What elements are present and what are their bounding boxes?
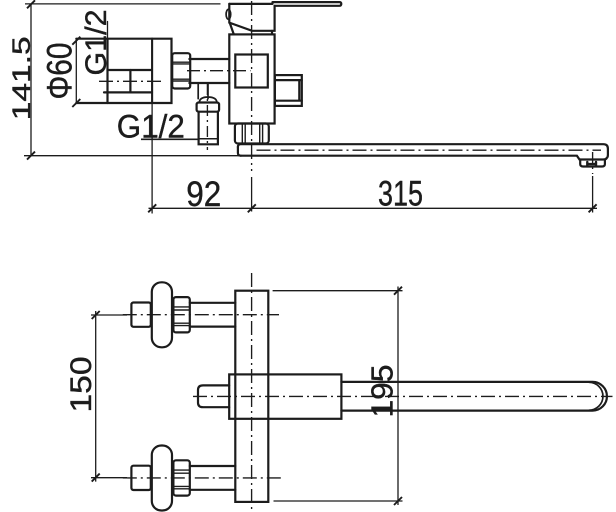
141.5 bottom extension	[24, 155, 239, 157]
svg-text:150: 150	[65, 357, 98, 413]
195 top extension	[273, 290, 403, 292]
diverter dome	[199, 97, 217, 103]
spout nut	[235, 124, 269, 144]
150 escutcheon (front, upper)	[152, 282, 172, 347]
spout centerline (front)	[193, 395, 613, 397]
valve seat square	[235, 55, 267, 88]
spout tube top	[238, 144, 608, 158]
svg-text:195: 195	[365, 365, 400, 418]
150 escutcheon (front, lower)	[152, 446, 172, 511]
hex facet lines (upper)	[174, 307, 190, 326]
pipe centerline (side)	[187, 70, 251, 72]
diverter centerline	[206, 84, 208, 150]
diverter cap	[197, 103, 220, 112]
92/315 dimension line	[149, 207, 598, 209]
92/315 ticks	[148, 204, 596, 212]
body column (front)	[235, 291, 268, 502]
150 dimension line	[95, 311, 97, 482]
svg-text:92: 92	[186, 175, 221, 214]
phi60 dimension line	[75, 39, 77, 103]
handle neck slant	[230, 23, 234, 34]
315 right extension	[592, 176, 594, 213]
connector nut	[172, 53, 190, 88]
inlet pipe (front, upper)	[190, 303, 236, 327]
handle base	[229, 4, 274, 31]
150 bottom extension	[91, 477, 127, 479]
svg-text:Φ60: Φ60	[40, 43, 79, 100]
inlet nub (front)	[198, 385, 229, 407]
150 hex nut (front, lower)	[173, 460, 189, 495]
spout mount box (front)	[229, 374, 341, 418]
195 bottom extension	[274, 500, 403, 502]
150 wall nut (front, lower)	[131, 466, 150, 490]
side shower outlet	[275, 75, 302, 106]
diverter knob body	[199, 112, 218, 145]
svg-text:141.5: 141.5	[8, 36, 36, 120]
body centerline extension to dim	[251, 177, 253, 212]
svg-text:G1/2: G1/2	[80, 10, 113, 76]
195 dimension line	[397, 287, 399, 506]
diverter stem	[198, 83, 208, 99]
cup back edge / G1/2 extension	[106, 39, 108, 103]
spout tube left end	[238, 147, 241, 156]
150 ticks	[92, 311, 100, 482]
G1/2 label underline leader	[141, 138, 198, 140]
faucet body	[229, 34, 274, 123]
outlet flange lines	[275, 80, 302, 101]
inlet pipe (front, lower)	[190, 466, 236, 490]
inlet pipe	[189, 59, 229, 83]
195 ticks	[394, 287, 402, 505]
eccentric connector body	[104, 70, 152, 92]
spout bar end inner arc	[589, 382, 603, 410]
svg-text:315: 315	[378, 175, 423, 214]
150 top extension	[91, 314, 127, 316]
spout centerline (side)	[257, 149, 602, 151]
body centerline (side)	[251, 1, 253, 171]
141.5 dimension line	[30, 5, 32, 156]
phi60 ticks	[72, 37, 80, 107]
aerator housing	[580, 160, 605, 167]
141.5 top extension	[25, 3, 221, 5]
wall escutcheon cup (side view)	[76, 39, 171, 103]
upper connector centerline (front)	[123, 314, 279, 316]
knob ring line	[199, 138, 218, 140]
nut facet lines	[172, 62, 190, 81]
column centerline (front)	[251, 273, 253, 509]
spout nut facets	[242, 124, 262, 144]
lower connector centerline (front)	[123, 477, 283, 479]
handle pivot ellipse	[226, 9, 231, 19]
svg-text:G1/2: G1/2	[117, 109, 185, 145]
eccentric centerline (side)	[99, 80, 163, 82]
141.5 ticks	[27, 0, 35, 159]
eccentric divider	[129, 70, 131, 92]
spout bottom / aerator step	[241, 156, 607, 160]
150 hex nut (front, upper)	[173, 297, 189, 332]
handle lever bar top	[229, 2, 341, 6]
aerator insert	[587, 162, 596, 166]
150 wall nut (front, upper)	[131, 303, 150, 327]
cup face line / 92 extension leader	[151, 39, 153, 103]
cartridge collar step	[271, 31, 273, 35]
hex facet lines (lower)	[174, 470, 190, 489]
spout bar (front)	[341, 382, 607, 411]
aerator centerline	[592, 152, 594, 174]
